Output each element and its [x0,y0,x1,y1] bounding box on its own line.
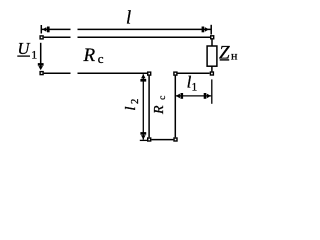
node: source bottom terminal [39,71,43,75]
voltage arrow U1 shaft [40,43,42,69]
wire: bottom conductor right segment [177,72,209,74]
arrowhead up (dimension l2 top): triangle + bar [141,74,146,78]
label l2 (stub length, rotated) [123,99,141,111]
wire: top conductor left segment [44,36,71,38]
svg-text:R: R [83,45,96,66]
svg-text:1: 1 [31,47,37,61]
arrowhead left (dimension l1): triangle + bar [176,94,180,99]
node: stub left bottom [147,137,151,141]
wire: bottom conductor mid segment [78,72,148,74]
wire: stub left vertical [148,76,150,138]
arrowhead down (dimension l2 bottom): triangle + bar [141,135,146,139]
load resistor Z_n rectangle [207,46,217,66]
dimension line l (top) [42,28,211,30]
svg-text:2: 2 [130,99,141,104]
label Rc of stub (rotated) [152,96,168,115]
svg-text:с: с [158,96,168,100]
svg-text:1: 1 [192,82,198,94]
wire: top conductor right segment [78,36,211,38]
dimension line l1 [176,95,212,97]
node: stub right top [173,71,177,75]
node: stub left top [147,71,151,75]
dimension tick right [210,25,212,35]
underline of Z [220,59,230,61]
svg-text:l: l [126,9,131,29]
arrowhead right (dimension l1): triangle + bar [207,94,211,99]
wire: stub bottom short-circuit bar [151,139,173,141]
node: load top terminal [210,35,214,39]
svg-text:с: с [98,51,104,66]
wire: bottom conductor left segment [44,72,71,74]
wire: load top lead [211,39,213,46]
dimension extension line for l1 (below load) [211,79,213,103]
svg-text:l: l [123,106,139,110]
wire: stub right vertical [174,76,176,138]
wire: load bottom lead [211,66,213,71]
arrowhead right (dimension l): triangle + bar [205,27,209,32]
dimension line l2 [142,74,144,139]
dimension extension tick for l2 (bottom) [140,139,147,141]
svg-text:R: R [152,105,167,115]
dimension tick left [40,25,42,34]
node: source top terminal [39,35,43,39]
svg-text:н: н [231,48,238,62]
underline of U1 [17,55,30,57]
svg-text:U: U [18,39,31,58]
arrowhead left (dimension l): triangle + bar [42,27,46,32]
node: load bottom terminal [210,71,214,75]
arrowhead down (voltage arrow U1): triangle + bar [38,66,43,70]
node: stub right bottom [173,137,177,141]
